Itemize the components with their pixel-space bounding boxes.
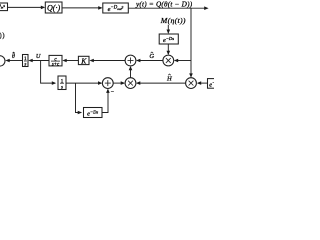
svg-text:G: G bbox=[149, 53, 154, 60]
label H hat bbox=[166, 74, 173, 82]
svg-text:K: K bbox=[80, 56, 87, 65]
multiplier circle (G demodulation) bbox=[163, 55, 174, 66]
lowpass filter box c/(s+c) bbox=[49, 55, 62, 67]
wire predictor delay up to lower summer minus input bbox=[102, 89, 110, 113]
svg-text:y(t) = Q(θ(t − D)): y(t) = Q(θ(t − D)) bbox=[135, 1, 193, 9]
svg-text:)): )) bbox=[0, 32, 5, 39]
wire second integrator to lower summer bbox=[66, 81, 102, 85]
wire K to lowpass bbox=[62, 59, 78, 63]
svg-text:s+c: s+c bbox=[52, 63, 60, 68]
wire U lowpass to integrator bbox=[28, 59, 49, 63]
gain box K bbox=[78, 56, 89, 65]
second integrator box 1/s bbox=[58, 76, 66, 90]
branch down to predictor delay bbox=[76, 83, 83, 114]
label G hat bbox=[149, 52, 154, 60]
wire y(t) to the right with arrow bbox=[128, 6, 208, 10]
wire Q to output delay bbox=[62, 6, 103, 10]
wire y tap into G demod multiplier bbox=[174, 59, 191, 63]
lower summer circle bbox=[102, 78, 113, 89]
dither delay box e^-Ds bbox=[159, 34, 178, 44]
svg-text:Q(·): Q(·) bbox=[47, 3, 60, 12]
wire lower multiplier up into upper summer bbox=[129, 66, 133, 78]
branch U down to second integrator bbox=[41, 61, 57, 85]
integrator box 1/s bbox=[23, 55, 29, 68]
wire lower summer to lower multiplier bbox=[113, 81, 125, 85]
svg-text:−: − bbox=[111, 90, 115, 96]
output delay box e^-Dout s bbox=[103, 3, 129, 13]
svg-text:θ: θ bbox=[12, 54, 15, 60]
demod delay box (cut off at right edge) bbox=[208, 79, 228, 89]
wire upper summer to K bbox=[89, 59, 125, 63]
svg-text:U: U bbox=[36, 53, 41, 60]
predictor delay box e^-Ds bbox=[84, 108, 103, 118]
wire from right demod delay into H multiplier bbox=[197, 81, 208, 85]
y branch vertical wire bbox=[189, 8, 193, 78]
label theta hat bbox=[12, 52, 15, 60]
left summer circle (cut off at edge) bbox=[0, 56, 5, 66]
svg-text:s: s bbox=[24, 63, 26, 68]
wire G to upper summer bbox=[136, 59, 163, 63]
H demod multiplier circle bbox=[186, 78, 197, 89]
input delay box e^-Din s (cut off at left edge) bbox=[0, 3, 8, 11]
wire theta-hat to left summer bbox=[5, 59, 22, 63]
svg-text:s: s bbox=[61, 85, 63, 90]
static map box Q(.) bbox=[45, 2, 62, 13]
svg-text:M(η(t)): M(η(t)) bbox=[160, 16, 186, 25]
wire dither delay to G multiplier bbox=[167, 44, 171, 55]
arrow M(eta) into dither delay bbox=[167, 25, 171, 34]
lower multiplier circle bbox=[125, 78, 136, 89]
wire H-hat from right multiplier to lower multiplier bbox=[136, 81, 186, 85]
upper summer circle bbox=[125, 55, 136, 66]
wire input delay to Q bbox=[8, 6, 46, 10]
